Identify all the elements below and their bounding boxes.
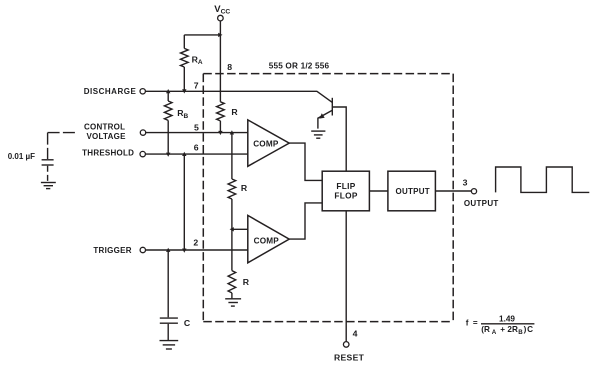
junction arrow comp2 ref tap	[230, 227, 234, 231]
comparator COMP1	[248, 120, 289, 166]
trigger terminal pin 2	[93, 246, 145, 255]
reset terminal pin 4	[343, 342, 349, 348]
junction arrow at VCC line	[218, 33, 222, 37]
capacitor 0.01uF plates	[42, 160, 54, 165]
discharge terminal pin 7	[84, 87, 146, 96]
svg-text:OUTPUT: OUTPUT	[396, 187, 430, 196]
wire flip flop to output block	[369, 190, 388, 192]
svg-text:OUTPUT: OUTPUT	[464, 199, 499, 208]
capacitor C	[160, 318, 191, 328]
svg-text:3: 3	[463, 178, 468, 188]
ground for capacitor C	[160, 341, 179, 349]
resistor RB	[164, 91, 188, 154]
svg-text:R: R	[231, 107, 238, 117]
svg-text:2: 2	[193, 237, 198, 247]
junction arrow C branch on trigger line	[166, 248, 170, 252]
transistor Q1 emitter	[318, 110, 332, 128]
wire threshold node 6 line	[145, 153, 247, 155]
resistor R2 (internal divider middle)	[228, 179, 248, 199]
svg-text:=: =	[473, 318, 478, 327]
wire C to ground	[167, 324, 169, 340]
output terminal pin 3	[471, 189, 476, 194]
svg-text:COMP: COMP	[253, 139, 279, 148]
power terminal VCC	[214, 4, 230, 21]
svg-text:2R: 2R	[507, 325, 518, 334]
resistor R1 (internal divider top)	[217, 102, 239, 132]
junction arrow R1 bottom on control line	[218, 131, 222, 135]
wire control voltage node 5 line	[146, 132, 248, 134]
svg-text:5: 5	[194, 122, 199, 132]
svg-text:CC: CC	[221, 8, 231, 15]
dashed IC boundary box	[203, 74, 453, 322]
svg-text:A: A	[492, 329, 497, 336]
svg-text:C: C	[184, 318, 191, 328]
wire VCC vertical to pin 8 and R1 top	[219, 21, 221, 102]
svg-text:TRIGGER: TRIGGER	[93, 246, 132, 255]
wire comp2 reference input	[232, 228, 248, 230]
ground for divider R3	[225, 299, 241, 306]
dashed wire bypass cap to ground	[47, 166, 49, 182]
ground for bypass cap	[41, 183, 56, 189]
svg-text:4: 4	[353, 328, 358, 338]
wire trigger line	[146, 249, 248, 251]
frequency formula f = 1.49/((RA+2RB)C)	[466, 315, 535, 337]
svg-text:THRESHOLD: THRESHOLD	[82, 149, 134, 158]
wire flip flop to reset pin 4	[345, 211, 347, 342]
svg-text:RESET: RESET	[334, 353, 365, 363]
svg-text:(R: (R	[481, 325, 490, 334]
svg-text:CONTROL: CONTROL	[84, 122, 125, 131]
svg-text:B: B	[184, 113, 189, 120]
transistor Q1 base lead to flip flop	[332, 107, 346, 171]
svg-text:R: R	[241, 183, 248, 193]
flip flop box U1	[322, 171, 369, 211]
transistor Q1 emitter arrow	[319, 113, 324, 118]
svg-text:FLIP: FLIP	[336, 181, 355, 191]
wire trigger to capacitor C	[167, 250, 169, 317]
svg-text:0.01 µF: 0.01 µF	[8, 152, 35, 161]
junction arrow RB top on discharge line	[166, 89, 170, 93]
svg-text:6: 6	[194, 142, 199, 152]
ground for transistor emitter	[311, 131, 325, 138]
svg-text:1.49: 1.49	[499, 315, 515, 324]
junction arrow RB bottom on threshold line	[166, 153, 170, 157]
svg-text:8: 8	[227, 62, 232, 72]
svg-text:FLOP: FLOP	[334, 190, 357, 200]
wire divider chain upper	[231, 133, 233, 179]
wire VCC to RA top	[184, 34, 220, 36]
svg-text:A: A	[198, 59, 203, 66]
comparator COMP2	[248, 215, 289, 262]
svg-text:+: +	[500, 325, 505, 334]
wire divider chain middle	[231, 199, 233, 271]
junction arrow threshold-trigger link bottom	[182, 249, 186, 253]
control voltage terminal pin 5	[84, 122, 146, 141]
output block	[388, 171, 436, 211]
wire threshold to trigger	[183, 154, 185, 250]
wire comp1 output to flip flop	[289, 143, 322, 180]
svg-text:7: 7	[194, 81, 199, 91]
svg-text:B: B	[518, 329, 523, 336]
dashed wire control voltage to bypass cap	[48, 132, 77, 134]
junction arrow RA onto discharge line	[182, 89, 186, 93]
wire discharge line to transistor collector	[145, 91, 332, 102]
svg-text:VOLTAGE: VOLTAGE	[86, 132, 126, 141]
svg-text:DISCHARGE: DISCHARGE	[84, 87, 137, 96]
svg-text:COMP: COMP	[254, 236, 280, 245]
svg-text:C: C	[527, 325, 533, 334]
wire output block to pin 3	[435, 190, 471, 192]
resistor R3 (internal divider bottom)	[228, 271, 250, 299]
threshold terminal pin 6	[82, 149, 145, 158]
junction arrow divider chain top on node 5	[230, 130, 234, 134]
svg-text:R: R	[243, 277, 250, 287]
resistor RA	[181, 35, 203, 91]
square wave output waveform	[496, 167, 590, 192]
wire comp2 output to flip flop	[289, 203, 322, 239]
svg-text:555 OR 1/2 556: 555 OR 1/2 556	[269, 61, 330, 70]
svg-text:f: f	[466, 318, 469, 327]
junction arrow threshold to trigger link top	[182, 152, 186, 156]
transistor Q1 base bar	[331, 98, 333, 116]
